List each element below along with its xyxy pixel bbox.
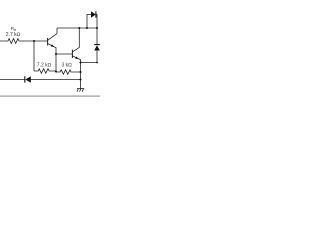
node dot emitter junction: [79, 61, 81, 63]
corner dot right: [96, 62, 98, 64]
node dot 3k right: [79, 71, 81, 73]
wire D1 cathode to right edge: [96, 15, 97, 45]
transistor Q2 emitter: [73, 56, 81, 89]
transistor Q1 collector: [48, 28, 57, 40]
diode D1 bar: [95, 11, 97, 17]
node dot bottom wire: [79, 78, 81, 80]
node A dot: [33, 40, 35, 42]
resistor R 7.2k: [34, 69, 56, 73]
svg-text:7.2 kΩ: 7.2 kΩ: [37, 62, 52, 68]
svg-text:3 kΩ: 3 kΩ: [62, 62, 73, 68]
node dot resistor junction: [55, 70, 57, 72]
node dot right rail: [96, 27, 98, 29]
transistor Q2 emitter arrow: [75, 57, 78, 59]
ground: [77, 89, 84, 92]
page rule: [0, 96, 100, 97]
resistor R 3k: [56, 70, 81, 74]
diode D3 bar: [94, 44, 100, 46]
wire diode D1 branch: [87, 15, 91, 29]
transistor Q1 emitter arrow: [51, 44, 54, 47]
svg-text:2.7 kΩ: 2.7 kΩ: [6, 32, 21, 38]
wire: [31, 79, 81, 81]
wire Q2 base: [56, 53, 72, 55]
wire bottom left with diode D2: [0, 79, 25, 81]
wire node A down: [33, 41, 35, 71]
node dot Q2 collector: [78, 27, 80, 29]
transistor Q1 base bar: [47, 38, 49, 46]
diode D2 bar: [24, 76, 26, 82]
resistor RB: [0, 39, 47, 44]
svg-text:RB: RB: [11, 26, 16, 32]
diode D2 triangle: [25, 76, 30, 82]
transistor Q2 base bar: [71, 50, 73, 58]
node dot D1 anode: [86, 27, 88, 29]
wire top rail: [57, 27, 97, 29]
transistor Q1 emitter: [48, 44, 56, 72]
diode D1 triangle: [91, 11, 96, 17]
wire right edge down: [81, 51, 98, 63]
diode D3 triangle: [94, 45, 100, 50]
node dot Q2 base: [55, 53, 57, 55]
transistor Q2 collector: [73, 28, 80, 52]
